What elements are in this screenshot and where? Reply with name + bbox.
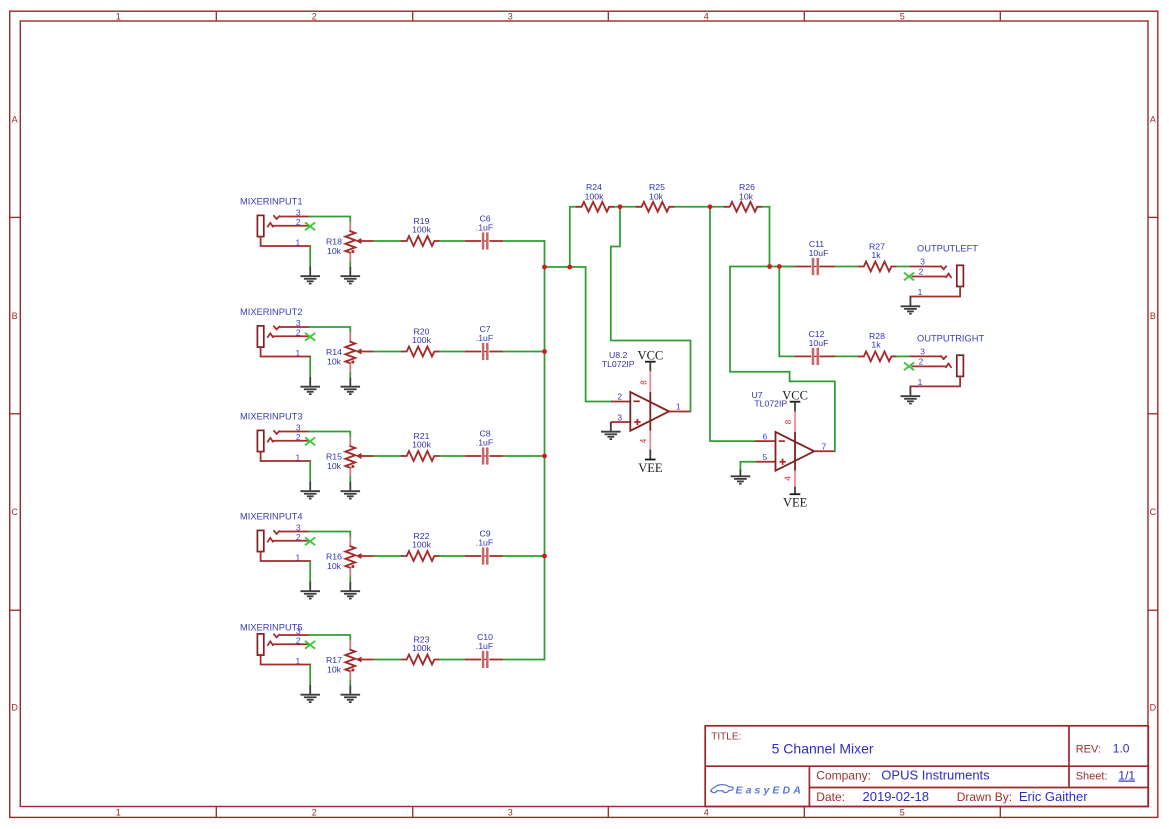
wire pot to ground (349, 262, 351, 268)
svg-text:R24: R24 (586, 182, 602, 192)
svg-text:EasyEDA: EasyEDA (736, 785, 804, 797)
svg-text:1k: 1k (871, 250, 881, 260)
svg-text:MIXERINPUT2: MIXERINPUT2 (240, 307, 303, 317)
op-amp U8.2 TL072IP (602, 350, 691, 449)
wire U7 feedback (730, 267, 835, 452)
svg-text:4: 4 (784, 476, 793, 481)
svg-text:1: 1 (116, 808, 121, 818)
junction output node b (777, 264, 782, 269)
wire resistor to cap (439, 455, 465, 457)
svg-text:7: 7 (822, 441, 827, 451)
svg-text:TL072IP: TL072IP (602, 359, 635, 369)
svg-text:C: C (11, 507, 18, 517)
svg-text:10k: 10k (327, 356, 342, 366)
wire cap to bus (503, 455, 544, 457)
capacitor C9 .1uF (465, 529, 503, 565)
svg-text:1: 1 (918, 287, 923, 297)
junction node A (567, 265, 572, 270)
svg-text:Company:: Company: (816, 769, 871, 783)
wire cap to bus (503, 555, 544, 557)
wire R27 to jack (896, 266, 910, 268)
svg-text:1: 1 (676, 402, 681, 412)
jack connector OUTPUTRIGHT (910, 346, 963, 387)
wire pin3 to pot (309, 217, 350, 222)
svg-text:1: 1 (296, 237, 301, 247)
wire node to C11 (779, 266, 795, 268)
svg-text:10k: 10k (649, 192, 664, 202)
svg-text:2: 2 (296, 328, 301, 338)
svg-text:10k: 10k (327, 246, 342, 256)
ground OUTPUTLEFT (901, 297, 921, 314)
svg-text:100k: 100k (585, 192, 604, 202)
svg-text:.1uF: .1uF (476, 223, 493, 233)
svg-text:Eric Gaither: Eric Gaither (1019, 789, 1088, 804)
svg-text:Date:: Date: (816, 790, 845, 804)
wire cap to bus (503, 659, 544, 661)
company text (816, 768, 990, 783)
wire resistor to cap (439, 659, 465, 661)
wire R24 to R25 (614, 206, 637, 208)
svg-text:A: A (1150, 114, 1156, 124)
wire C11 to R27 (835, 266, 859, 268)
svg-text:10uF: 10uF (809, 338, 829, 348)
svg-text:100k: 100k (412, 643, 431, 653)
wire summing bus vertical (544, 241, 546, 660)
svg-text:1: 1 (116, 11, 121, 21)
svg-text:10k: 10k (739, 192, 754, 202)
svg-text:VEE: VEE (783, 496, 808, 510)
resistor R19 100k (402, 216, 439, 246)
wire pin3 to pot (309, 432, 350, 437)
jack connector MIXERINPUT2 (257, 318, 310, 358)
svg-text:VCC: VCC (782, 388, 808, 402)
svg-text:D: D (11, 703, 18, 713)
svg-text:8: 8 (639, 380, 648, 385)
wire wiper to resistor (374, 351, 402, 353)
ground U8 pin3 (601, 422, 621, 439)
svg-text:4: 4 (639, 438, 648, 443)
wire output node (730, 266, 795, 268)
ground jack (300, 267, 320, 284)
wire cap to bus (503, 240, 544, 242)
resistor R20 100k (402, 326, 439, 356)
wire pin3 to pot (309, 327, 350, 332)
jack connector MIXERINPUT5 (257, 626, 310, 666)
svg-text:2: 2 (296, 532, 301, 542)
no-connect X pin 2 (305, 333, 315, 341)
wire pin1 to ground (309, 561, 311, 582)
svg-text:1: 1 (296, 348, 301, 358)
no-connect X OUTPUTRIGHT pin2 (904, 363, 914, 371)
svg-text:2: 2 (312, 11, 317, 21)
svg-text:2: 2 (617, 392, 622, 402)
sheet text (1076, 769, 1136, 783)
svg-text:2: 2 (919, 267, 924, 277)
svg-text:8: 8 (784, 419, 793, 424)
ground pot (341, 482, 361, 499)
svg-text:10k: 10k (327, 561, 342, 571)
svg-text:MIXERINPUT4: MIXERINPUT4 (240, 512, 303, 522)
wire pin1 to ground (309, 461, 311, 482)
svg-text:100k: 100k (412, 439, 431, 449)
svg-text:OUTPUTRIGHT: OUTPUTRIGHT (917, 333, 984, 343)
svg-text:VCC: VCC (638, 348, 664, 362)
wire R28 to jack (896, 355, 910, 357)
wire bus to node A (545, 266, 586, 268)
svg-text:5: 5 (763, 452, 768, 462)
junction output node a (767, 264, 772, 269)
svg-text:3: 3 (508, 808, 513, 818)
ground pot (341, 582, 361, 599)
ground jack (300, 377, 320, 394)
wire wiper to resistor (374, 555, 402, 557)
svg-text:3: 3 (920, 257, 925, 267)
svg-text:1: 1 (296, 452, 301, 462)
svg-text:2019-02-18: 2019-02-18 (863, 789, 930, 804)
svg-text:1k: 1k (871, 340, 881, 350)
no-connect X pin 2 (305, 641, 315, 649)
capacitor C7 .1uF (465, 324, 503, 360)
svg-text:10uF: 10uF (809, 248, 829, 258)
wire cap to bus (503, 351, 544, 353)
power VEE U8 (638, 449, 663, 474)
wire node A to pin2 (586, 267, 611, 402)
svg-text:100k: 100k (412, 539, 431, 549)
wire pot to ground (349, 372, 351, 378)
power VEE U7 (783, 487, 808, 510)
wire R25 to U7 pin6 (710, 207, 755, 441)
wire wiper to resistor (374, 240, 402, 242)
svg-text:2: 2 (919, 357, 924, 367)
svg-text:1/1: 1/1 (1118, 769, 1135, 783)
ground pot (341, 378, 361, 395)
svg-text:TITLE:: TITLE: (711, 732, 741, 743)
ground jack (300, 582, 320, 599)
wire pin1 to ground (309, 357, 311, 378)
svg-text:OPUS Instruments: OPUS Instruments (881, 768, 990, 783)
wire R26 to output node (762, 207, 770, 267)
wire U8 feedback (611, 207, 691, 412)
rev text (1076, 742, 1130, 756)
svg-text:MIXERINPUT5: MIXERINPUT5 (240, 623, 303, 633)
easyeda logo (711, 785, 804, 797)
junction bus (542, 554, 547, 559)
resistor R26 10k (725, 182, 762, 212)
svg-text:Sheet:: Sheet: (1076, 771, 1108, 783)
power VCC U8 (638, 348, 664, 371)
wire pin3 to pot (309, 635, 350, 640)
date text (816, 789, 1088, 804)
svg-text:3: 3 (617, 412, 622, 422)
no-connect X pin 2 (305, 437, 315, 445)
ground jack (300, 685, 320, 702)
capacitor C12 10uF (795, 329, 835, 365)
svg-text:MIXERINPUT1: MIXERINPUT1 (240, 197, 303, 207)
svg-text:Drawn By:: Drawn By: (957, 790, 1012, 804)
jack connector MIXERINPUT1 (257, 208, 310, 248)
wire U8 output (689, 411, 691, 413)
no-connect X pin 2 (305, 537, 315, 545)
title text (711, 732, 874, 757)
potentiometer R17 10k (326, 640, 373, 680)
wire resistor to cap (439, 351, 465, 353)
capacitor C8 .1uF (465, 429, 503, 465)
wire resistor to cap (439, 555, 465, 557)
potentiometer R15 10k (326, 437, 373, 477)
wire pin1 to ground (309, 665, 311, 686)
svg-text:R25: R25 (649, 182, 665, 192)
capacitor C10 .1uF (465, 632, 503, 668)
title block frame (705, 726, 1148, 807)
resistor R28 1k (859, 331, 896, 361)
wire pot to ground (349, 680, 351, 686)
jack connector MIXERINPUT4 (257, 523, 310, 563)
potentiometer R14 10k (326, 332, 373, 372)
svg-text:MIXERINPUT3: MIXERINPUT3 (240, 412, 303, 422)
resistor R25 10k (637, 182, 674, 212)
svg-text:1.0: 1.0 (1113, 742, 1130, 756)
no-connect X pin 2 (305, 222, 315, 230)
junction R24-R25 (618, 204, 623, 209)
svg-text:100k: 100k (412, 224, 431, 234)
svg-text:.1uF: .1uF (476, 538, 493, 548)
power VCC U7 (782, 388, 808, 411)
ground pot (341, 686, 361, 703)
wire R25 to R26 (674, 206, 725, 208)
resistor R24 100k (577, 182, 614, 212)
wire to C12 branch (779, 267, 795, 357)
jack connector OUTPUTLEFT (910, 257, 963, 298)
junction R25-R26 (708, 204, 713, 209)
svg-text:VEE: VEE (638, 461, 663, 475)
no-connect X OUTPUTLEFT pin2 (904, 273, 914, 281)
resistor R21 100k (402, 431, 439, 461)
svg-text:A: A (12, 114, 18, 124)
svg-text:D: D (1150, 703, 1157, 713)
svg-text:B: B (12, 311, 18, 321)
ground OUTPUTRIGHT (901, 386, 921, 403)
svg-text:6: 6 (763, 431, 768, 441)
ground U7 pin5 (731, 470, 751, 484)
svg-text:R26: R26 (739, 182, 755, 192)
svg-text:10k: 10k (327, 461, 342, 471)
wire pin1 to ground (309, 246, 311, 267)
svg-text:2: 2 (296, 432, 301, 442)
svg-text:1: 1 (296, 552, 301, 562)
ground pot (341, 267, 361, 284)
svg-text:5: 5 (900, 808, 905, 818)
svg-text:10k: 10k (327, 664, 342, 674)
wire pot to ground (349, 577, 351, 583)
wire U7 pin5 to ground (740, 462, 755, 470)
op-amp U7 TL072IP (751, 390, 834, 487)
svg-text:.1uF: .1uF (476, 333, 493, 343)
svg-text:4: 4 (704, 808, 709, 818)
svg-text:.1uF: .1uF (476, 641, 493, 651)
wire pot to ground (349, 477, 351, 483)
capacitor C6 .1uF (465, 214, 503, 250)
junction bus (542, 265, 547, 270)
wire wiper to resistor (374, 659, 402, 661)
svg-text:4: 4 (704, 11, 709, 21)
svg-text:OUTPUTLEFT: OUTPUTLEFT (917, 244, 978, 254)
jack connector MIXERINPUT3 (257, 423, 310, 463)
junction bus (542, 454, 547, 459)
wire pin3 to pot (309, 532, 350, 537)
svg-text:.1uF: .1uF (476, 438, 493, 448)
ground jack (300, 482, 320, 499)
svg-text:3: 3 (920, 346, 925, 356)
resistor R27 1k (859, 241, 896, 271)
svg-text:C: C (1150, 507, 1157, 517)
wire node A to R24 (570, 207, 577, 267)
svg-text:2: 2 (296, 217, 301, 227)
svg-text:REV:: REV: (1076, 744, 1101, 756)
resistor R23 100k (402, 634, 439, 664)
svg-text:1: 1 (918, 377, 923, 387)
svg-text:1: 1 (296, 656, 301, 666)
potentiometer R16 10k (326, 537, 373, 577)
svg-text:B: B (1150, 311, 1156, 321)
svg-text:5 Channel Mixer: 5 Channel Mixer (772, 741, 874, 757)
resistor R22 100k (402, 531, 439, 561)
potentiometer R18 10k (326, 222, 373, 262)
wire C12 to R28 (835, 355, 859, 357)
svg-text:100k: 100k (412, 335, 431, 345)
junction bus (542, 349, 547, 354)
wire wiper to resistor (374, 455, 402, 457)
svg-text:2: 2 (296, 636, 301, 646)
svg-text:3: 3 (508, 11, 513, 21)
capacitor C11 10uF (795, 239, 835, 275)
svg-text:2: 2 (312, 808, 317, 818)
wire resistor to cap (439, 240, 465, 242)
svg-text:5: 5 (900, 11, 905, 21)
